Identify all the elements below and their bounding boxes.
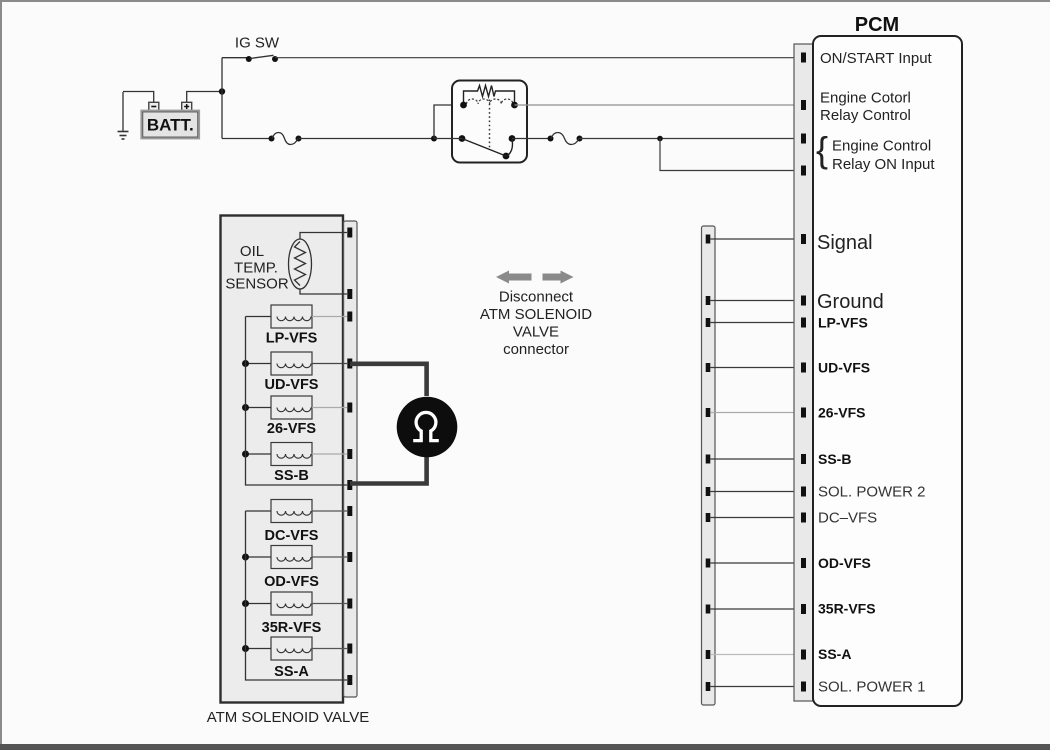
wire DC-VFS left lead [246,510,272,512]
ground [118,92,129,139]
svg-text:OIL: OIL [240,243,264,260]
ATM connector pins [347,228,352,686]
battery negative terminal [149,102,159,110]
wire SS-A right lead [312,648,347,650]
wire SOL. POWER 2 [710,491,801,493]
wire battery positive to junction [187,92,222,103]
fuse F1 [269,133,302,145]
wire Signal [710,238,801,240]
wire sensor bottom lead [300,289,347,294]
relay box [452,81,527,163]
arrow left (disconnect) [496,271,532,284]
node battery junction [219,88,225,94]
svg-text:DC–VFS: DC–VFS [818,510,877,527]
node pin3 branch [657,136,663,142]
wire fuse F1 to relay [299,138,435,140]
solenoid LP-VFS [266,305,318,347]
arrow right (disconnect) [543,271,574,284]
PCM pins [801,53,806,692]
svg-text:OD-VFS: OD-VFS [264,574,319,590]
battery positive terminal [182,102,192,110]
wire junction to fuse F1 [222,138,272,140]
wire SS-B right lead [312,453,347,455]
wire SS-B left lead [246,453,272,455]
solenoid UD-VFS [265,352,319,393]
label Engine Control Relay ON Input [816,129,935,173]
solenoid SS-A [271,637,312,680]
fuse F2 [548,133,583,145]
svg-text:connector: connector [503,341,569,358]
ohmmeter lead top [350,364,427,396]
svg-text:TEMP.: TEMP. [234,260,278,277]
svg-text:SS-B: SS-B [818,451,851,467]
svg-text:SS-A: SS-A [818,646,851,662]
node SS-B tap [242,451,249,458]
wire OD-VFS right lead [312,556,347,558]
svg-text:PCM: PCM [855,14,899,36]
wire 26-VFS [710,412,801,414]
svg-text:VALVE: VALVE [513,324,559,341]
svg-text:SS-B: SS-B [274,468,309,484]
svg-text:Engine Cotorl: Engine Cotorl [820,90,911,107]
relay actuation dotted link [489,100,491,151]
svg-text:LP-VFS: LP-VFS [818,315,868,331]
node OD tap [242,554,249,561]
solenoid OD-VFS [264,546,319,591]
wire group2 bus [246,511,348,680]
svg-text:26-VFS: 26-VFS [267,421,316,437]
ohmmeter [397,397,458,458]
ATM solenoid valve box [221,216,344,703]
wire relay junction to coil [434,105,464,139]
solenoid 35R-VFS [262,592,322,636]
svg-text:OD-VFS: OD-VFS [818,555,871,571]
svg-text:IG SW: IG SW [235,35,280,52]
wire 35R-VFS left lead [246,603,272,605]
relay switch lower contact [503,153,510,160]
wire OD-VFS [710,562,801,564]
svg-text:UD-VFS: UD-VFS [265,377,319,393]
node relay junction [431,136,437,142]
wire group1 bus [246,317,348,486]
svg-text:Disconnect: Disconnect [499,289,574,306]
svg-text:DC-VFS: DC-VFS [265,528,319,544]
wire 26-VFS right lead [312,407,347,409]
wire SOL. POWER 1 [710,686,801,688]
svg-text:35R-VFS: 35R-VFS [818,601,876,617]
wire battery negative to ground [123,92,154,103]
page left border [0,0,2,750]
svg-text:SENSOR: SENSOR [225,276,289,293]
battery BATT. [142,111,200,139]
relay coil terminal right [511,102,518,109]
page bottom border [0,744,1050,750]
wire DC-VFS [710,517,801,519]
PCM connector strip [794,44,813,701]
oil temp sensor thermistor [289,239,312,289]
ohmmeter lead bottom [350,457,427,484]
wire LP-VFS [710,322,801,324]
wire UD-VFS right lead [312,363,347,365]
wire 35R-VFS right lead [312,603,347,605]
wire sensor top lead [300,233,347,240]
wire SS-A [710,654,801,656]
label Engine Cotorl Relay Control [820,90,911,125]
relay contact hook [507,139,513,156]
wire Ground [710,300,801,302]
wire LP-VFS left lead [246,316,272,318]
wire SS-B [710,458,801,460]
wire branch to PCM pin4 [660,139,801,171]
relay switch contact right [509,135,516,142]
svg-text:LP-VFS: LP-VFS [266,331,318,347]
solenoid DC-VFS [265,500,319,545]
svg-text:SS-A: SS-A [274,664,309,680]
relay coil [467,99,513,104]
svg-text:ON/START Input: ON/START Input [820,50,933,67]
solenoid 26-VFS [267,396,316,437]
relay coil terminal left [460,102,467,109]
wire relay switch left lead [434,138,462,140]
solenoid SS-B [271,443,312,485]
svg-text:Relay Control: Relay Control [820,107,911,124]
wire relay switch to fuse F2 [512,138,551,140]
svg-text:Ground: Ground [817,291,884,313]
wire SS-A left lead [246,648,272,650]
page top border [0,0,1050,2]
wire to IG SW [222,57,249,59]
svg-text:ATM SOLENOID VALVE: ATM SOLENOID VALVE [207,709,370,726]
wire relay coil to PCM pin2 [515,104,802,106]
wire OD-VFS left lead [246,556,272,558]
wire junction vertical [221,58,223,139]
harness connector pins [706,235,711,692]
svg-text:SOL. POWER 2: SOL. POWER 2 [818,484,926,501]
svg-text:26-VFS: 26-VFS [818,405,865,421]
switch IG SW [235,35,280,63]
svg-text:ATM SOLENOID: ATM SOLENOID [480,306,592,323]
wire LP-VFS right lead [312,316,347,318]
node SS-A tap [242,645,249,652]
node 26 tap [242,404,249,411]
wire 26-VFS left lead [246,407,272,409]
resistor (relay parallel) [464,86,515,106]
PCM box [813,36,962,706]
svg-text:Signal: Signal [817,232,873,254]
relay armature [462,139,506,157]
ATM valve-side connector strip [344,221,357,697]
svg-text:35R-VFS: 35R-VFS [262,620,322,636]
wire UD-VFS left lead [246,363,272,365]
wire IG SW to PCM pin1 [275,57,801,59]
node UD tap [242,360,249,367]
label OIL TEMP. SENSOR [225,243,289,293]
svg-text:Relay ON Input: Relay ON Input [832,156,935,173]
svg-text:SOL. POWER 1: SOL. POWER 1 [818,679,926,696]
wire DC-VFS right lead [312,510,347,512]
note Disconnect ATM SOLENOID VALVE connector [480,289,592,359]
svg-text:{: { [816,129,828,170]
svg-text:UD-VFS: UD-VFS [818,360,870,376]
svg-text:Engine Control: Engine Control [832,138,931,155]
wire UD-VFS [710,367,801,369]
relay switch contact left [459,135,466,142]
node 35R tap [242,600,249,607]
harness connector strip [702,226,716,705]
wire fuse F2 to PCM pin3 [580,138,802,140]
wire 35R-VFS [710,608,801,610]
svg-text:BATT.: BATT. [147,116,194,135]
